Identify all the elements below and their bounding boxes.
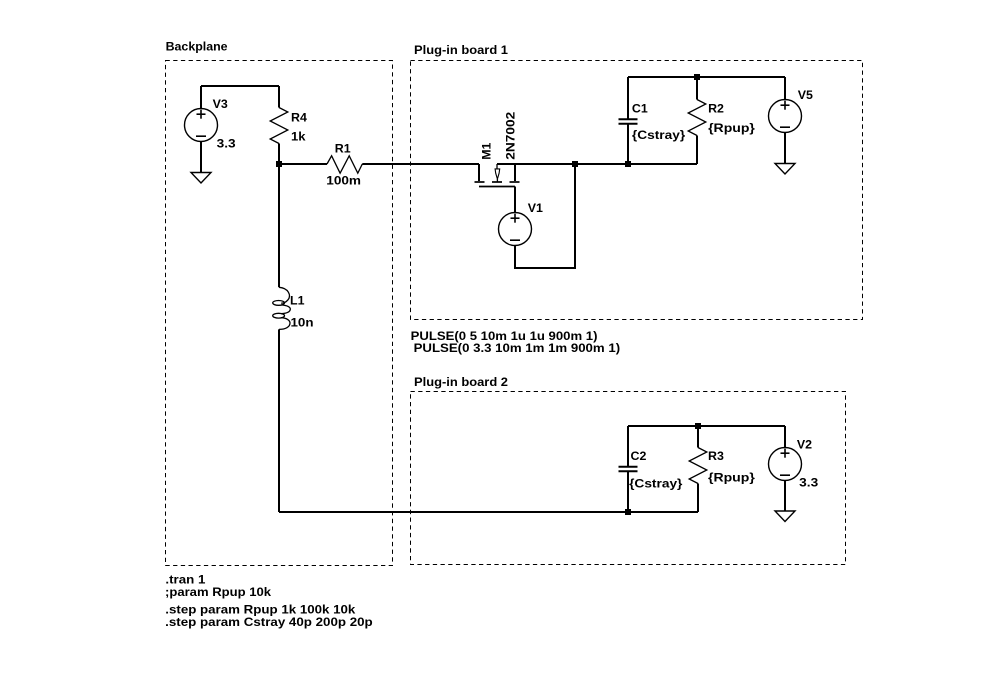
svg-text:C1: C1 (632, 101, 648, 115)
svg-text:{Cstray}: {Cstray} (632, 128, 685, 142)
svg-text:V1: V1 (528, 201, 543, 215)
svg-text:V2: V2 (797, 438, 812, 452)
svg-text:C2: C2 (631, 449, 647, 463)
svg-text:2N7002: 2N7002 (504, 112, 518, 160)
svg-text:R2: R2 (708, 101, 724, 115)
svg-text:.step param Cstray 40p 200p 20: .step param Cstray 40p 200p 20p (165, 615, 373, 629)
svg-text:PULSE(0 3.3 10m 1m 1m 900m 1): PULSE(0 3.3 10m 1m 1m 900m 1) (414, 341, 620, 355)
svg-text:3.3: 3.3 (799, 475, 818, 489)
svg-text:{Rpup}: {Rpup} (708, 471, 755, 485)
svg-text:Plug-in board 2: Plug-in board 2 (414, 375, 508, 389)
svg-text:Backplane: Backplane (166, 40, 228, 54)
svg-text:{Cstray}: {Cstray} (629, 477, 682, 491)
svg-text:;param Rpup 10k: ;param Rpup 10k (165, 585, 271, 599)
svg-text:1k: 1k (291, 129, 306, 143)
svg-text:V5: V5 (798, 88, 813, 102)
svg-text:R3: R3 (708, 449, 724, 463)
svg-text:R4: R4 (291, 110, 307, 124)
svg-text:100m: 100m (326, 173, 361, 187)
svg-text:{Rpup}: {Rpup} (708, 121, 755, 135)
svg-text:V3: V3 (213, 97, 228, 111)
svg-text:Plug-in board 1: Plug-in board 1 (414, 43, 508, 57)
svg-text:3.3: 3.3 (217, 137, 236, 151)
svg-text:R1: R1 (335, 142, 351, 156)
svg-text:M1: M1 (479, 142, 493, 159)
svg-text:L1: L1 (290, 294, 305, 308)
svg-text:10n: 10n (291, 315, 314, 329)
